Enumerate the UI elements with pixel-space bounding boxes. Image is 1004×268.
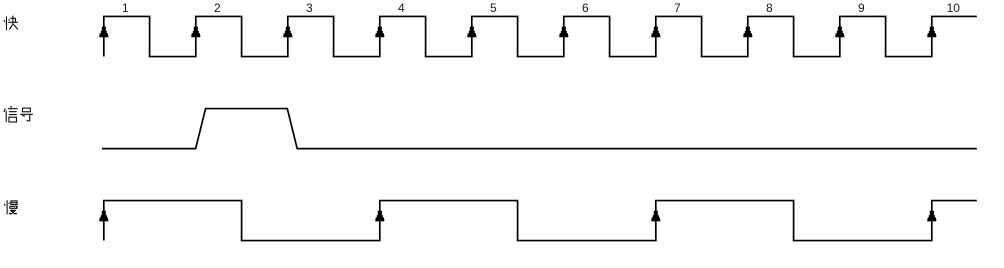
svg-text:7: 7 bbox=[674, 1, 681, 15]
svg-text:2: 2 bbox=[214, 1, 221, 15]
svg-text:3: 3 bbox=[306, 1, 313, 15]
svg-text:9: 9 bbox=[858, 1, 865, 15]
svg-text:8: 8 bbox=[766, 1, 773, 15]
svg-text:5: 5 bbox=[490, 1, 497, 15]
svg-text:1: 1 bbox=[122, 1, 129, 15]
svg-text:10: 10 bbox=[947, 1, 961, 15]
svg-text:6: 6 bbox=[582, 1, 589, 15]
svg-text:4: 4 bbox=[398, 1, 405, 15]
